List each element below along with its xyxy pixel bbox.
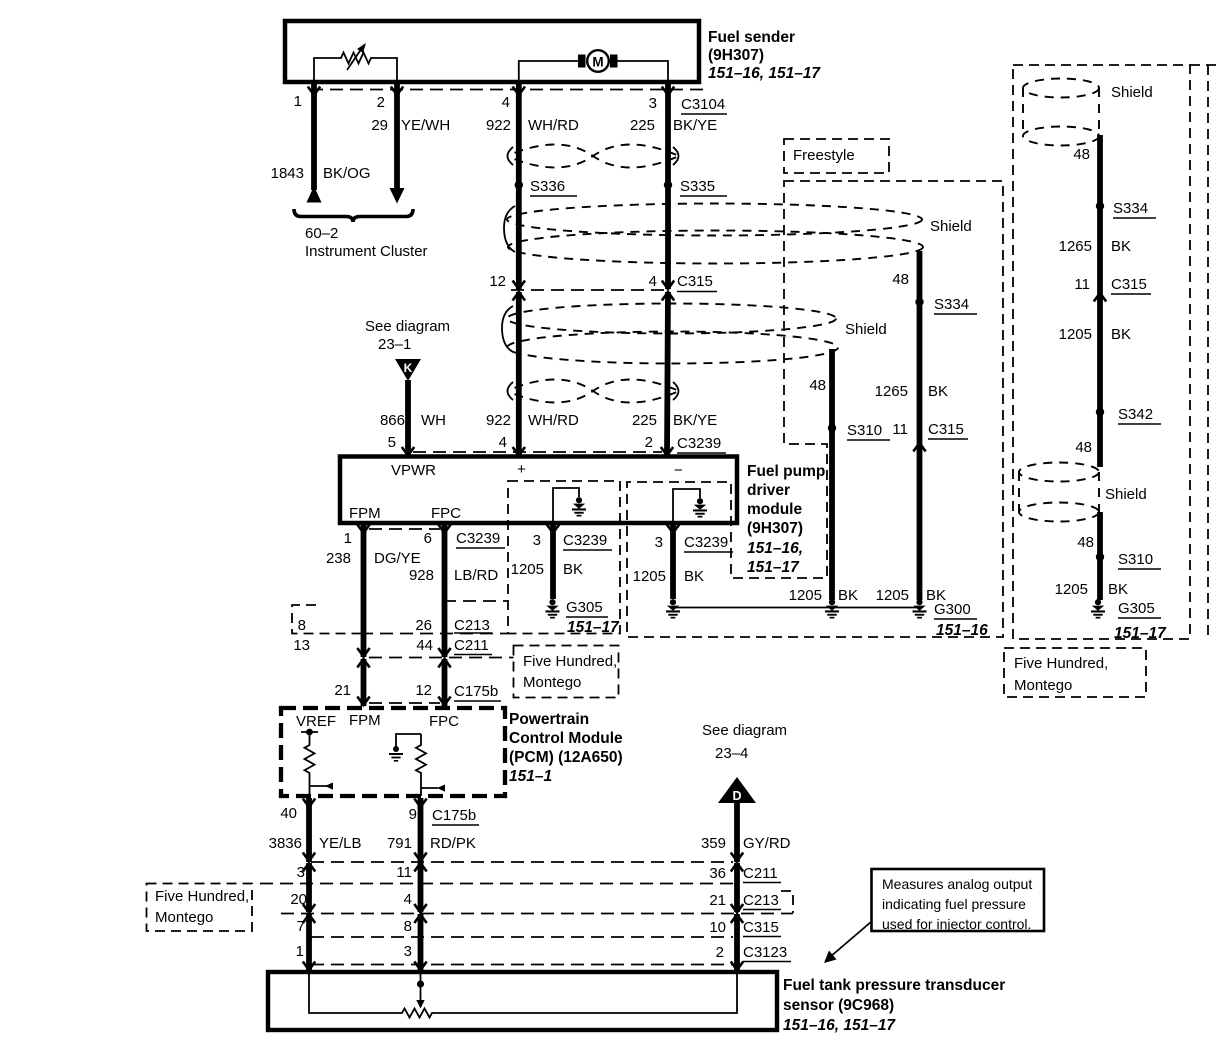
svg-text:13: 13	[293, 637, 310, 654]
svg-text:S336: S336	[530, 178, 565, 195]
svg-text:359: 359	[701, 835, 726, 852]
svg-text:791: 791	[387, 835, 412, 852]
C211 row pins 3/11/36	[297, 864, 781, 883]
svg-text:YE/WH: YE/WH	[401, 117, 450, 134]
svg-text:C213: C213	[454, 617, 490, 634]
svg-text:C211: C211	[743, 865, 778, 882]
svg-text:1: 1	[294, 93, 302, 110]
svg-text:8: 8	[404, 918, 412, 935]
Freestyle label box	[784, 139, 889, 173]
svg-text:FPC: FPC	[431, 505, 461, 522]
module output pin 1 (FPM)	[326, 524, 421, 657]
twisted pair symbol upper	[507, 145, 679, 168]
ground symbol at S310 drain	[825, 599, 839, 618]
svg-text:36: 36	[709, 865, 726, 882]
svg-text:225: 225	[632, 412, 657, 429]
fuel sender box	[285, 21, 699, 82]
svg-text:Fuel pump: Fuel pump	[747, 463, 825, 480]
svg-text:21: 21	[709, 892, 726, 909]
svg-text:M: M	[592, 55, 603, 70]
C315 row pins 7/8/10	[297, 918, 781, 937]
wire 29 YE/WH pin2 to instrument cluster	[371, 84, 450, 204]
splice S310 (right)	[1096, 551, 1161, 569]
svg-text:23–4: 23–4	[715, 745, 748, 762]
svg-text:60–2: 60–2	[305, 225, 338, 242]
svg-text:D: D	[732, 789, 741, 803]
wire 1205 BK (right lower)	[1055, 581, 1128, 598]
Five Hundred/Montego label box (right)	[1004, 648, 1146, 697]
svg-text:922: 922	[486, 412, 511, 429]
svg-text:module: module	[747, 501, 802, 518]
internal ground circuit (+ side)	[553, 488, 586, 523]
svg-text:11: 11	[892, 421, 908, 438]
splice S335	[664, 178, 727, 196]
svg-text:WH/RD: WH/RD	[528, 412, 579, 429]
svg-text:922: 922	[486, 117, 511, 134]
splice S342	[1075, 406, 1161, 456]
svg-text:1: 1	[296, 943, 304, 960]
wire 922 WH/RD upper segment	[486, 84, 579, 289]
svg-text:C3239: C3239	[563, 532, 607, 549]
svg-text:151–17: 151–17	[567, 619, 620, 636]
svg-text:151–16, 151–17: 151–16, 151–17	[708, 65, 821, 82]
connector C315 row line	[281, 904, 793, 923]
svg-text:BK: BK	[928, 383, 948, 400]
svg-text:VPWR: VPWR	[391, 462, 436, 479]
svg-text:2: 2	[377, 94, 385, 111]
module ground pin 3 C3239 to G300	[633, 524, 733, 599]
dashed line above C213 row	[443, 600, 508, 602]
svg-text:48: 48	[892, 271, 909, 288]
FPC internal resistor	[416, 734, 445, 796]
svg-text:BK: BK	[684, 568, 704, 585]
svg-text:151–16: 151–16	[936, 622, 988, 639]
svg-text:WH/RD: WH/RD	[528, 117, 579, 134]
svg-text:4: 4	[502, 94, 510, 111]
svg-text:BK/YE: BK/YE	[673, 117, 717, 134]
ground G305 (right)	[1091, 599, 1167, 642]
svg-text:Powertrain: Powertrain	[509, 711, 589, 728]
svg-text:used for injector control.: used for injector control.	[882, 916, 1031, 932]
variant sub-box Five Hundred/Montego (G305 circuit)	[508, 481, 620, 634]
svg-text:Measures analog output: Measures analog output	[882, 876, 1032, 892]
svg-text:5: 5	[388, 434, 396, 451]
svg-text:Fuel sender: Fuel sender	[708, 29, 795, 46]
rheostat (fuel level sender element)	[314, 43, 397, 81]
harness dashed line above sensor	[311, 964, 733, 966]
svg-text:1265: 1265	[1059, 238, 1092, 255]
svg-text:(PCM) (12A650): (PCM) (12A650)	[509, 749, 623, 766]
see diagram 23-1 reference K	[365, 318, 450, 381]
svg-text:1205: 1205	[876, 587, 909, 604]
svg-text:Montego: Montego	[1014, 677, 1072, 694]
svg-text:K: K	[404, 361, 413, 375]
splice S334 (right)	[1096, 200, 1156, 218]
svg-text:151–16,: 151–16,	[747, 540, 803, 557]
svg-text:FPC: FPC	[429, 713, 459, 730]
connector C3104 dashed line under sender	[310, 89, 703, 91]
svg-text:4: 4	[499, 434, 507, 451]
svg-text:(9H307): (9H307)	[708, 47, 764, 64]
fuel sender label	[708, 29, 821, 82]
svg-text:C3123: C3123	[743, 944, 787, 961]
see diagram 23-4 reference D	[702, 722, 787, 803]
connector C315 pin 11 (right)	[1074, 276, 1151, 302]
svg-text:Five Hundred,: Five Hundred,	[155, 888, 249, 905]
svg-text:C315: C315	[743, 919, 779, 936]
svg-text:12: 12	[489, 273, 506, 290]
shield drain wire 48 lower	[1077, 512, 1100, 600]
svg-text:FPM: FPM	[349, 505, 381, 522]
twisted pair symbol lower	[507, 380, 679, 403]
wire 1265 BK (right)	[1059, 238, 1131, 255]
svg-text:23–1: 23–1	[378, 336, 411, 353]
svg-text:Shield: Shield	[1111, 84, 1153, 101]
svg-text:S342: S342	[1118, 406, 1153, 423]
svg-text:BK/YE: BK/YE	[673, 412, 717, 429]
wire 1205 BK (right upper)	[1059, 326, 1131, 343]
module name label	[747, 463, 825, 576]
module output pin 6 (FPC)	[409, 524, 505, 657]
svg-text:YE/LB: YE/LB	[319, 835, 362, 852]
wire segments pin9 column	[418, 863, 424, 912]
svg-text:7: 7	[297, 918, 305, 935]
connector C213 row line	[260, 883, 733, 885]
svg-text:866: 866	[380, 412, 405, 429]
wire 791 RD/PK	[387, 835, 476, 852]
connector C175b row (pins 21/12)	[334, 682, 501, 705]
svg-text:48: 48	[1075, 439, 1092, 456]
dashed harness line below module	[369, 528, 440, 530]
C213 row pins 20/4/21	[290, 891, 781, 910]
shield1 drain wire 48 / S334 / 1265 BK / C315 / 1205 BK to G300	[875, 251, 977, 604]
svg-text:1205: 1205	[1059, 326, 1092, 343]
connector C211 row line	[303, 853, 743, 872]
svg-text:BK: BK	[1111, 326, 1131, 343]
svg-text:Shield: Shield	[930, 218, 972, 235]
svg-text:3: 3	[404, 943, 412, 960]
svg-text:3: 3	[297, 864, 305, 881]
svg-text:238: 238	[326, 550, 351, 567]
VREF internal resistor	[301, 729, 333, 796]
svg-text:151–1: 151–1	[509, 768, 552, 785]
wire 225 BK/YE lower segment	[632, 292, 717, 455]
Five Hundred/Montego label box (left)	[147, 884, 253, 932]
connector C3104 label	[681, 96, 727, 114]
svg-text:C315: C315	[1111, 276, 1147, 293]
ground G300	[913, 599, 989, 639]
svg-text:WH: WH	[421, 412, 446, 429]
shield2 drain wire 48 / S310	[789, 349, 890, 604]
svg-text:11: 11	[1074, 276, 1090, 293]
svg-text:C175b: C175b	[454, 683, 498, 700]
ground symbol at module G300 branch	[666, 599, 680, 618]
svg-text:2: 2	[716, 944, 724, 961]
svg-text:+: +	[517, 461, 526, 478]
svg-text:Shield: Shield	[845, 321, 887, 338]
svg-text:C3239: C3239	[456, 530, 500, 547]
svg-text:BK: BK	[563, 561, 583, 578]
shield cylinder top	[1023, 79, 1153, 146]
right variant dashed box	[1013, 65, 1216, 639]
connector C3123 row line	[311, 936, 733, 938]
PCM dashed box	[281, 708, 505, 796]
wire FPC lower segment to PCM	[442, 659, 448, 706]
svg-text:C213: C213	[743, 892, 779, 909]
svg-text:3836: 3836	[269, 835, 302, 852]
svg-text:C211: C211	[454, 637, 489, 654]
fuel pump driver module box	[340, 457, 737, 524]
module ground pin 3 C3239 to G305	[511, 524, 612, 599]
svg-text:G300: G300	[934, 601, 971, 618]
svg-text:4: 4	[404, 891, 412, 908]
connector C211 row (pins 13/44)	[293, 637, 513, 668]
svg-text:40: 40	[280, 805, 297, 822]
svg-text:RD/PK: RD/PK	[430, 835, 476, 852]
svg-text:1843: 1843	[271, 165, 304, 182]
svg-text:Montego: Montego	[155, 909, 213, 926]
C3123 row pins 1/3/2	[296, 943, 791, 962]
svg-text:1265: 1265	[875, 383, 908, 400]
svg-text:C3239: C3239	[677, 435, 721, 452]
wire segments pin40 column	[306, 863, 312, 912]
svg-text:BK: BK	[838, 587, 858, 604]
note box: measures analog output	[824, 869, 1044, 963]
svg-text:Instrument Cluster: Instrument Cluster	[305, 243, 428, 260]
svg-text:Montego: Montego	[523, 674, 581, 691]
svg-text:1205: 1205	[511, 561, 544, 578]
svg-text:151–17: 151–17	[747, 559, 800, 576]
svg-text:See diagram: See diagram	[702, 722, 787, 739]
svg-text:C3239: C3239	[684, 534, 728, 551]
svg-text:44: 44	[416, 637, 433, 654]
svg-text:C315: C315	[677, 273, 713, 290]
Five Hundred/Montego label box (below module grounds)	[514, 646, 619, 698]
ground G305 (module left)	[546, 599, 621, 636]
svg-text:Shield: Shield	[1105, 486, 1147, 503]
svg-text:151–16, 151–17: 151–16, 151–17	[783, 1017, 896, 1034]
svg-text:1205: 1205	[789, 587, 822, 604]
svg-text:6: 6	[424, 530, 432, 547]
shield 2 (lower, drain to S310)	[502, 304, 887, 364]
module pin labels	[349, 461, 683, 522]
svg-text:S335: S335	[680, 178, 715, 195]
internal ground circuit (- side)	[673, 489, 707, 523]
svg-text:sensor (9C968): sensor (9C968)	[783, 997, 894, 1014]
svg-text:928: 928	[409, 567, 434, 584]
wire 359 GY/RD	[701, 803, 791, 862]
connector C315 row (pins 12/4)	[489, 273, 717, 301]
svg-text:29: 29	[371, 117, 388, 134]
shield 1 (upper, drain to right)	[504, 204, 972, 264]
svg-text:11: 11	[396, 864, 412, 881]
connector C213 row (pins 8/26)	[298, 617, 508, 634]
svg-text:indicating fuel pressure: indicating fuel pressure	[882, 896, 1026, 912]
svg-text:Control Module: Control Module	[509, 730, 623, 747]
instrument cluster brace	[294, 209, 428, 260]
pins 4/2 into module, connector C3239	[413, 434, 726, 456]
svg-text:48: 48	[809, 377, 826, 394]
svg-text:G305: G305	[1118, 600, 1155, 617]
PCM internal labels	[296, 712, 459, 730]
wire 1843 BK/OG pin1 to instrument cluster	[271, 84, 371, 203]
svg-text:BK/OG: BK/OG	[323, 165, 371, 182]
svg-text:3: 3	[655, 534, 663, 551]
svg-text:VREF: VREF	[296, 713, 336, 730]
svg-text:S334: S334	[1113, 200, 1148, 217]
svg-text:Fuel tank pressure transducer: Fuel tank pressure transducer	[783, 977, 1005, 994]
svg-text:FPM: FPM	[349, 712, 381, 729]
svg-text:8: 8	[298, 617, 306, 634]
svg-text:10: 10	[709, 919, 726, 936]
wire segments GY/RD column	[734, 863, 740, 912]
svg-text:26: 26	[415, 617, 432, 634]
wire FPM lower segment to PCM	[361, 659, 367, 706]
svg-text:1: 1	[344, 530, 352, 547]
wire 922 WH/RD lower segment	[486, 292, 579, 455]
svg-text:G305: G305	[566, 599, 603, 616]
sensor box	[268, 972, 777, 1030]
wire 866 WH (VPWR feed)	[380, 380, 446, 456]
svg-text:151–17: 151–17	[1114, 625, 1167, 642]
svg-text:S334: S334	[934, 296, 969, 313]
svg-text:3: 3	[649, 95, 657, 112]
svg-text:Freestyle: Freestyle	[793, 147, 855, 164]
svg-text:225: 225	[630, 117, 655, 134]
Freestyle variant outline (big dashed polygon)	[627, 181, 1003, 637]
svg-text:See diagram: See diagram	[365, 318, 450, 335]
motor M (fuel pump)	[519, 50, 668, 81]
svg-text:21: 21	[334, 682, 351, 699]
splice S336	[515, 178, 577, 196]
svg-text:C175b: C175b	[432, 807, 476, 824]
PCM name label	[509, 711, 623, 785]
svg-text:C315: C315	[928, 421, 964, 438]
svg-text:C3104: C3104	[681, 96, 725, 113]
svg-text:−: −	[674, 462, 683, 479]
svg-text:Five Hundred,: Five Hundred,	[1014, 655, 1108, 672]
svg-text:9: 9	[409, 806, 417, 823]
svg-text:1205: 1205	[1055, 581, 1088, 598]
wire 225 BK/YE upper segment	[630, 84, 717, 289]
svg-text:LB/RD: LB/RD	[454, 567, 498, 584]
svg-text:(9H307): (9H307)	[747, 520, 803, 537]
shield drain wire 48 upper	[1073, 135, 1100, 467]
svg-text:1205: 1205	[633, 568, 666, 585]
PCM pin 9, connector C175b	[409, 798, 479, 862]
variant bracket around pin 8	[292, 605, 360, 634]
svg-text:BK: BK	[1108, 581, 1128, 598]
wire 3836 YE/LB	[269, 835, 362, 852]
svg-text:12: 12	[415, 682, 432, 699]
svg-text:driver: driver	[747, 482, 790, 499]
svg-text:GY/RD: GY/RD	[743, 835, 791, 852]
ground bus wire to G300	[673, 607, 920, 609]
svg-text:48: 48	[1077, 534, 1094, 551]
svg-text:S310: S310	[1118, 551, 1153, 568]
svg-text:3: 3	[533, 532, 541, 549]
FPM internal ground	[389, 734, 421, 762]
svg-text:DG/YE: DG/YE	[374, 550, 421, 567]
svg-text:4: 4	[649, 273, 657, 290]
svg-text:48: 48	[1073, 146, 1090, 163]
svg-text:2: 2	[645, 434, 653, 451]
sensor name label	[783, 977, 1005, 1034]
svg-text:S310: S310	[847, 422, 882, 439]
svg-text:BK: BK	[1111, 238, 1131, 255]
C213 right variant bracket	[781, 891, 793, 913]
PCM pin 40	[280, 798, 315, 862]
svg-text:Five Hundred,: Five Hundred,	[523, 653, 617, 670]
shield cylinder bottom	[1019, 463, 1147, 522]
sensor internal potentiometer	[309, 972, 737, 1018]
